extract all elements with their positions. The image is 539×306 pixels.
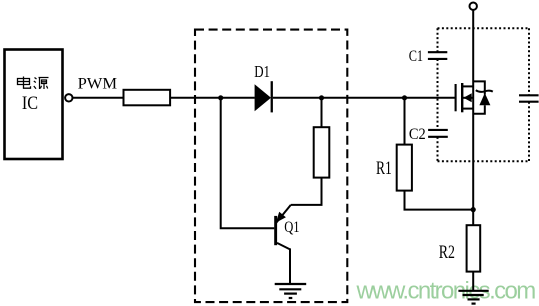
ground (Q1 collector)	[275, 284, 307, 298]
wire D1 cathode to MOSFET gate	[273, 97, 456, 99]
wire node B down to resistor Rb	[321, 98, 323, 127]
svg-text:Q1: Q1	[284, 219, 299, 236]
wire PWM to gate resistor	[73, 97, 124, 99]
resistor Rg (horizontal, unlabeled)	[124, 90, 171, 106]
svg-text:C2: C2	[409, 126, 426, 143]
label 源 (yuan) of 电源	[34, 78, 49, 90]
transistor Q1 (PNP)	[274, 205, 291, 284]
body diode of M1 (zener-style)	[473, 81, 493, 113]
resistor R1	[397, 145, 412, 191]
wire R1 bottom to node D	[405, 191, 474, 210]
ground (R2 bottom)	[458, 291, 488, 304]
svg-text:C1: C1	[409, 48, 423, 65]
wire node A down to Q1 base	[221, 98, 275, 228]
wire node C down to R1	[404, 98, 406, 145]
diode D1	[255, 81, 273, 112]
wire resistor to D1 anode	[170, 97, 255, 99]
svg-text:PWM: PWM	[78, 76, 118, 93]
svg-text:R1: R1	[376, 159, 392, 179]
node A junction	[218, 95, 223, 100]
svg-text:IC: IC	[22, 94, 38, 114]
capacitor Coss (right, unlabeled)	[519, 95, 539, 101]
node C junction	[402, 95, 407, 100]
MOSFET M1	[456, 83, 474, 112]
label 电 (dian) of 电源	[18, 77, 31, 89]
power IC box U-IC	[5, 50, 63, 160]
svg-text:www.cntronics.com: www.cntronics.com	[356, 277, 536, 304]
wire R2 bottom to ground	[472, 272, 474, 291]
terminal circle VIN (top)	[470, 2, 477, 9]
dotted box (MOSFET module)	[438, 28, 530, 161]
resistor R2	[467, 225, 481, 271]
terminal circle PWM output	[65, 94, 72, 101]
wire Rb bottom to Q1 emitter	[291, 178, 322, 205]
resistor Rb (vertical, unlabeled)	[314, 127, 330, 177]
svg-text:R2: R2	[439, 243, 455, 263]
capacitor C2	[428, 130, 448, 137]
svg-text:D1: D1	[254, 62, 270, 81]
capacitor C1	[428, 52, 447, 59]
wire main vertical drain-source rail	[472, 10, 474, 225]
node B junction	[319, 95, 324, 100]
node D junction	[471, 207, 476, 212]
dashed box (driver stage)	[195, 30, 347, 303]
